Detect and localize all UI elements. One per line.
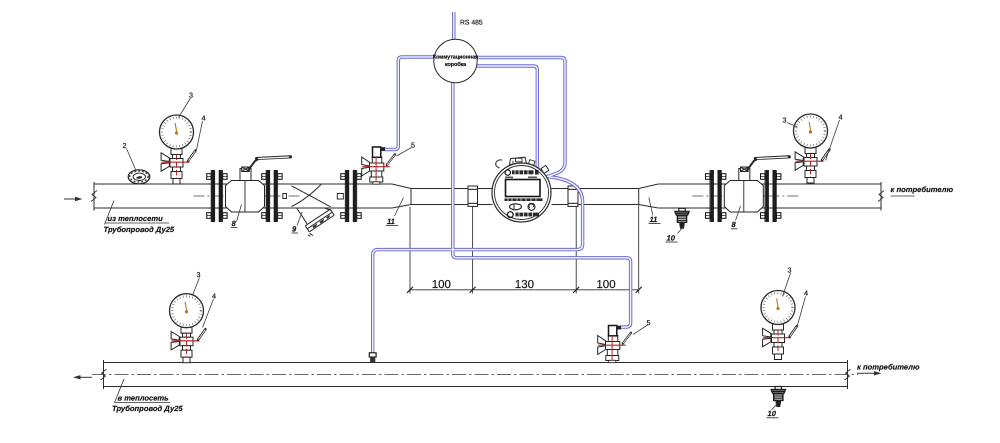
svg-text:из теплосети: из теплосети [108, 214, 164, 223]
svg-text:в теплосеть: в теплосеть [118, 394, 170, 403]
svg-text:11: 11 [650, 215, 658, 224]
svg-text:100: 100 [432, 279, 451, 291]
svg-text:4: 4 [212, 292, 216, 301]
svg-text:5: 5 [647, 318, 651, 327]
svg-text:Трубопровод Ду25: Трубопровод Ду25 [112, 404, 183, 413]
svg-text:Коммутационная: Коммутационная [433, 55, 478, 61]
svg-text:10: 10 [667, 234, 676, 243]
svg-text:4: 4 [202, 114, 206, 123]
svg-text:4: 4 [839, 113, 843, 122]
svg-text:к потребителю: к потребителю [857, 363, 920, 372]
svg-text:RS 485: RS 485 [460, 20, 483, 27]
svg-text:коробка: коробка [445, 61, 467, 68]
svg-text:к потребителю: к потребителю [891, 185, 954, 194]
svg-text:3: 3 [783, 116, 787, 125]
svg-text:Трубопровод Ду25: Трубопровод Ду25 [104, 225, 175, 234]
svg-text:2: 2 [123, 141, 127, 150]
svg-text:10: 10 [768, 409, 777, 418]
svg-text:100: 100 [596, 279, 615, 291]
svg-text:3: 3 [197, 270, 201, 279]
svg-text:130: 130 [515, 279, 534, 291]
svg-text:4: 4 [804, 289, 808, 298]
svg-text:11: 11 [387, 217, 395, 226]
svg-text:3: 3 [788, 266, 792, 275]
svg-text:5: 5 [411, 141, 415, 150]
svg-text:3: 3 [189, 91, 193, 100]
